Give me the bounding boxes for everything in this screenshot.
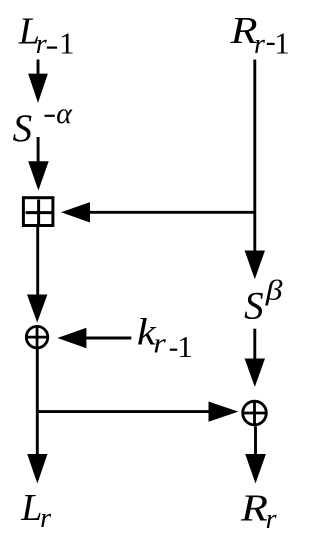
node S^-alpha [13,97,74,150]
svg-text:β: β [265,274,283,306]
svg-text:1: 1 [177,329,193,364]
XOR2 (circled plus, right) [243,401,267,425]
wire arrow from k_{r-1} into XOR1 [57,328,131,348]
node R_r [240,486,277,535]
XOR1 (circled plus, left) [25,326,48,349]
node L_r [20,487,51,534]
svg-text:r: r [266,504,277,535]
wire arrow from R_{r-1} line into modular adder [61,202,255,222]
wire arrow from XOR1 down to L_r [27,349,47,484]
node k_{r-1} [137,310,193,364]
node R_{r-1} [230,9,290,61]
svg-text:1: 1 [59,26,75,61]
wire arrow from XOR2 down to R_r [245,426,266,483]
svg-text:α: α [56,97,73,130]
svg-text:1: 1 [274,26,290,61]
modular adder (boxed plus) [23,198,53,226]
node S^beta [244,274,283,327]
svg-text:R: R [240,486,268,528]
wire arrow from S^-alpha to modular adder [28,137,49,191]
wire branch to XOR2 [36,402,238,422]
svg-text:r: r [40,503,51,534]
svg-text:r: r [254,29,265,60]
svg-text:r: r [153,327,166,359]
node L_{r-1} [18,10,75,60]
svg-text:r: r [36,29,47,60]
svg-text:S: S [13,107,32,150]
wire arrow from S^beta to XOR2 [245,329,265,387]
wire arrow from modular adder to XOR1 [27,227,47,323]
wire arrow from R_{r-1} to S^beta [245,60,265,280]
wire arrow from L_{r-1} to S^-alpha [28,60,48,103]
svg-text:S: S [244,284,264,327]
